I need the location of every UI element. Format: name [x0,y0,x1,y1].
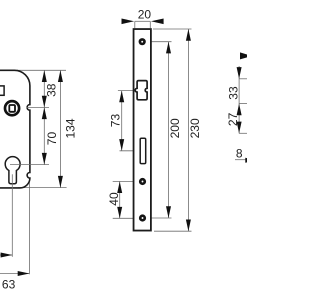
dimension line 63 [0,273,29,275]
dimension line 20 [135,20,151,22]
svg-text:8: 8 [236,147,243,161]
extension line: lock body bottom edge [18,187,67,189]
arrow 63 (points right) [18,271,30,276]
extension line: plate top to 230 [153,28,192,30]
svg-text:40: 40 [107,192,121,206]
extension line: cylinder centerline [10,164,49,166]
dimension line 200 [168,42,170,218]
extension line: 40 bottom left [113,217,140,219]
arrow 27 bottom (points down) [237,122,242,134]
extension line: plate right edge [149,21,151,28]
arrow 230 bottom [186,220,191,232]
screw hole middle [139,178,146,185]
dimension line 8 [235,159,246,161]
euro cylinder hole [5,157,20,184]
extension line right 2 [239,102,247,104]
extension line: plate bottom to 230 [154,230,192,232]
dimension line 38/70 [43,70,45,164]
faceplate outline [134,29,151,231]
svg-text:134: 134 [63,118,77,138]
dimension line 40 [119,181,121,218]
follower (square spindle hole) [5,101,19,115]
arrow 20 left (points right) [122,19,135,25]
deadbolt cutout [140,138,146,163]
dimension line 73 [121,91,123,151]
screw hole top [139,38,146,45]
arrow 70 bottom [42,153,47,165]
extension line: top screw hole to 200 [146,41,172,43]
extension line right 3 [239,132,247,134]
extension line: cylinder center vertical [11,174,13,256]
extension line: 73 top (latch center) [118,90,137,92]
lock body outline [0,70,30,188]
extension line right 1 [239,78,247,80]
arrow 20 right (points left) [151,19,164,25]
dimension line 230 [187,29,189,231]
svg-text:20: 20 [138,7,152,21]
svg-text:63: 63 [2,278,16,292]
svg-text:38: 38 [45,83,59,97]
arrow 73 bottom [119,139,124,151]
extension line: 73 bottom (deadbolt center) [120,150,140,152]
square hole top-left (clipped) [0,86,4,95]
arrow 200 top [166,42,171,54]
arrow 40 top [117,182,122,193]
svg-text:230: 230 [188,118,202,138]
arrow 33 top (outside, points down) [237,67,242,79]
arrow 134 top [58,70,63,82]
screw hole bottom [139,214,146,221]
dimension line right view vertical [238,66,240,133]
extension line: body right edge vertical [28,178,30,274]
arrow 70 top [42,107,47,119]
right view: horizontal arrow top (clipped) [240,52,252,59]
latch cutout (spool) [135,81,147,100]
arrow 230 top [186,29,191,41]
extension line: lock body top edge [17,69,66,71]
svg-text:70: 70 [45,132,59,146]
extension line: follower centerline [27,106,50,108]
extension line: bottom screw hole to 200 [146,217,172,219]
arrow 38 top [42,70,47,82]
svg-text:33: 33 [227,86,241,100]
arrow 38 bottom [42,96,47,108]
svg-text:73: 73 [109,114,123,128]
arrow 73 top [119,91,124,103]
arrow 40 bottom [117,207,122,218]
svg-text:200: 200 [168,118,182,138]
dimension line 134 [59,70,61,187]
arrow 200 bottom [166,206,171,218]
extension line: 40 top (mid screw hole) [113,180,140,182]
arrow 134 bottom [58,176,63,188]
svg-text:27: 27 [226,112,240,126]
dimension line backset (clipped) [0,254,12,256]
arrow 8 (points right, clipped) [245,158,257,163]
arrow backset (points right) [1,253,13,258]
arrow 27 top / 33 bottom (points up) [237,104,242,116]
extension line: plate left edge [134,21,136,28]
